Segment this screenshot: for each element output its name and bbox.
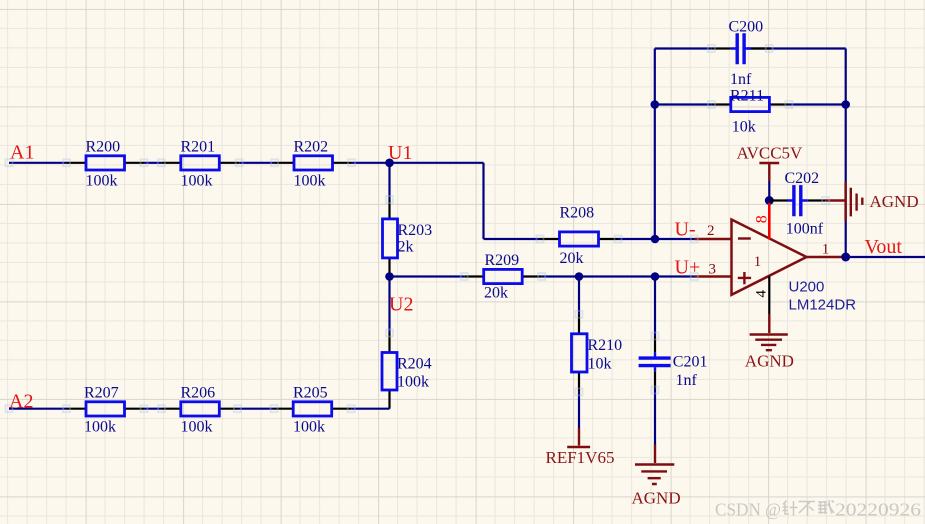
wire down to R210	[578, 277, 580, 315]
node U1	[385, 159, 394, 168]
svg-text:100k: 100k	[397, 374, 429, 391]
svg-text:10k: 10k	[732, 119, 756, 136]
svg-text:R208: R208	[560, 205, 595, 222]
wire U- row from corner	[484, 238, 541, 240]
svg-text:1: 1	[754, 254, 762, 270]
node pin8 junction	[765, 196, 774, 205]
wire R207-R206	[144, 408, 162, 410]
wire Vout	[846, 256, 925, 258]
svg-text:1nf: 1nf	[730, 71, 752, 88]
resistor R210	[572, 314, 623, 392]
wire R206-R205	[238, 408, 275, 410]
ground AGND right rotated	[825, 182, 918, 221]
svg-text:C202: C202	[785, 170, 820, 187]
svg-text:REF1V65: REF1V65	[546, 448, 615, 467]
resistor R203	[383, 200, 433, 277]
ground AGND bottom	[632, 445, 681, 508]
svg-text:U1: U1	[388, 142, 412, 164]
svg-text:100k: 100k	[181, 172, 213, 189]
svg-text:A1: A1	[10, 142, 34, 164]
wire AVCC down to pin8 node	[768, 181, 770, 201]
svg-text:100k: 100k	[86, 172, 118, 189]
svg-text:R203: R203	[398, 222, 433, 239]
resistor R208	[540, 205, 618, 268]
node U+ junction	[651, 272, 660, 281]
wire A1 input	[9, 162, 67, 164]
wire R211 row left	[655, 103, 712, 105]
svg-text:3: 3	[709, 262, 717, 278]
svg-text:R209: R209	[485, 252, 520, 269]
svg-text:AVCC5V: AVCC5V	[737, 144, 804, 163]
svg-text:2k: 2k	[398, 239, 414, 256]
pin 8	[754, 203, 771, 239]
svg-text:1nf: 1nf	[676, 372, 698, 389]
node R211 left junction	[651, 100, 660, 109]
resistor R205	[274, 384, 351, 435]
watermark	[715, 500, 921, 520]
svg-text:R206: R206	[181, 384, 216, 401]
svg-text:10k: 10k	[588, 356, 612, 373]
resistor R211	[712, 87, 789, 135]
svg-text:R204: R204	[397, 356, 432, 373]
node U2	[385, 272, 394, 281]
node U- junction	[651, 235, 660, 244]
wire C200 top loop	[655, 47, 846, 49]
node R211 right junction	[841, 100, 850, 109]
wire R211 row right	[789, 103, 846, 105]
svg-text:CSDN @: CSDN @	[715, 500, 781, 520]
wire corner down to U- row	[482, 163, 484, 239]
svg-text:100k: 100k	[181, 418, 213, 435]
svg-text:R210: R210	[588, 337, 623, 354]
capacitor C202	[769, 170, 825, 238]
resistor R201	[161, 139, 239, 190]
wire endpoint markers	[6, 45, 830, 412]
node R210 junction	[575, 272, 584, 281]
svg-text:R200: R200	[86, 139, 121, 156]
svg-text:AGND: AGND	[632, 489, 681, 508]
wire U+ row from U2	[390, 275, 465, 277]
op-amp U200 triangle	[732, 220, 807, 295]
svg-text:C201: C201	[673, 354, 708, 371]
svg-text:LM124DR: LM124DR	[789, 297, 857, 314]
svg-text:100k: 100k	[293, 418, 325, 435]
svg-text:Vout: Vout	[865, 236, 903, 258]
resistor R204	[382, 333, 432, 409]
power port REF1V65	[546, 428, 615, 467]
svg-text:20220926: 20220926	[835, 500, 921, 520]
resistor R202	[275, 139, 352, 190]
wire C201 down	[654, 388, 656, 444]
svg-text:100k: 100k	[84, 418, 116, 435]
svg-text:100k: 100k	[294, 172, 326, 189]
svg-text:R201: R201	[181, 139, 216, 156]
op-amp plus mark	[738, 272, 751, 284]
svg-text:C200: C200	[729, 19, 764, 36]
wire U- row to op-amp	[618, 238, 695, 240]
svg-text:AGND: AGND	[745, 352, 794, 371]
svg-text:U200: U200	[789, 279, 825, 296]
svg-text:100nf: 100nf	[786, 221, 824, 238]
wire U1 down	[388, 163, 390, 200]
ground AGND under op-amp	[745, 314, 794, 371]
svg-text:R207: R207	[84, 384, 119, 401]
wire R202 to corner via U1	[352, 162, 484, 164]
resistor R206	[162, 384, 238, 435]
pin 3	[695, 262, 732, 278]
resistor R200	[67, 139, 145, 190]
wire R200-R201	[144, 162, 161, 164]
svg-text:R211: R211	[730, 87, 764, 104]
svg-text:R202: R202	[294, 139, 329, 156]
wire U+ row to op-amp	[542, 275, 695, 277]
svg-text:AGND: AGND	[870, 192, 919, 211]
wire left vertical feedback	[654, 49, 656, 240]
node Vout junction	[841, 253, 850, 262]
resistor R209	[464, 252, 542, 302]
svg-text:4: 4	[754, 290, 770, 298]
svg-text:8: 8	[754, 215, 771, 223]
op-amp minus mark	[738, 237, 751, 239]
wire right vertical feedback	[845, 49, 847, 258]
pin 4	[754, 276, 770, 314]
wire R201-R202	[239, 162, 274, 164]
svg-text:U+: U+	[675, 257, 701, 279]
pin 1 output	[807, 242, 846, 258]
svg-text:20k: 20k	[484, 285, 508, 302]
wire R210 down	[578, 392, 580, 428]
svg-text:R205: R205	[293, 384, 328, 401]
capacitor C201	[639, 336, 708, 389]
resistor R207	[67, 384, 145, 435]
svg-text:1: 1	[822, 242, 830, 258]
pin 2	[695, 223, 732, 239]
wire down to C201	[654, 277, 656, 337]
wire U2 down	[388, 277, 390, 334]
wire R205 to corner under R204	[351, 408, 389, 410]
svg-text:U-: U-	[675, 219, 696, 241]
capacitor C200	[712, 19, 771, 89]
svg-text:2: 2	[707, 223, 715, 239]
svg-text:U2: U2	[389, 294, 413, 316]
svg-text:20k: 20k	[560, 250, 584, 267]
wire A2 input	[9, 408, 67, 410]
power port AVCC5V	[737, 144, 804, 182]
